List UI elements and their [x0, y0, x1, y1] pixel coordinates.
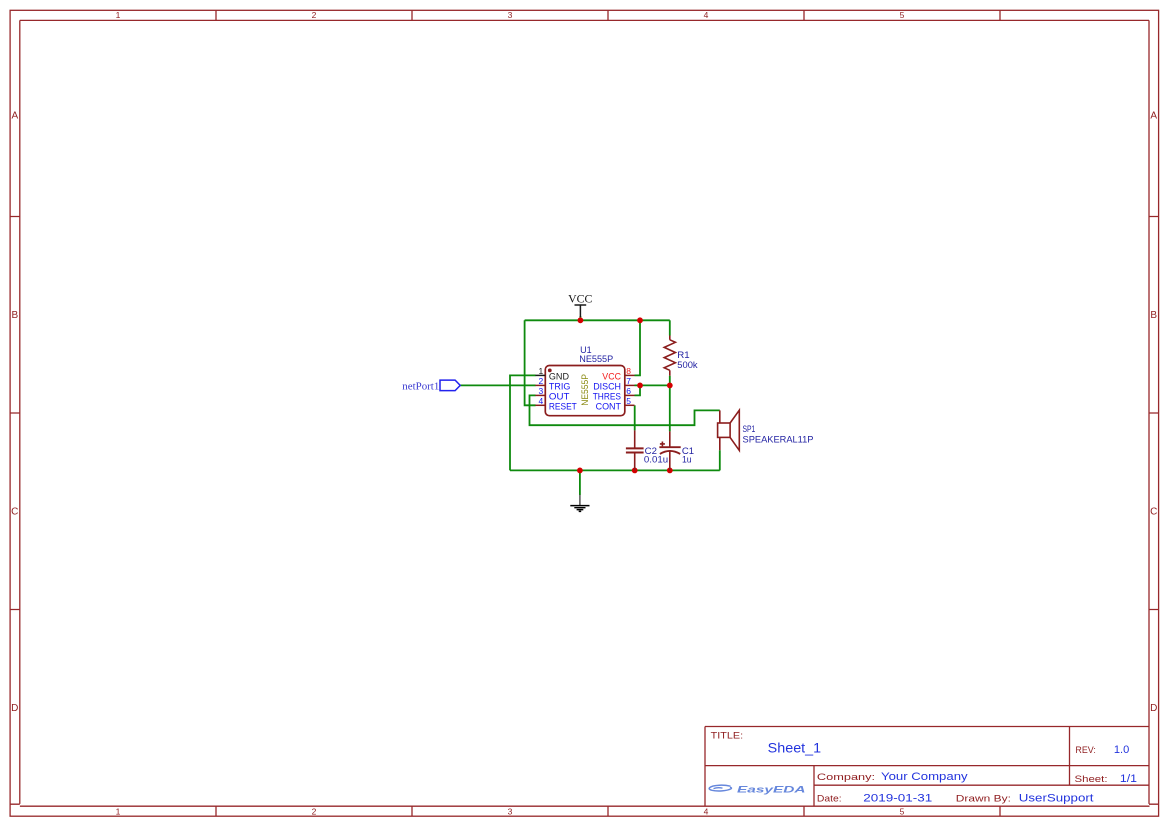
svg-text:1: 1	[116, 806, 121, 816]
svg-text:NE555P: NE555P	[579, 354, 613, 364]
column ticks bottom	[216, 806, 1000, 816]
capacitor C2	[626, 430, 644, 470]
svg-text:2: 2	[312, 806, 317, 816]
svg-text:4: 4	[704, 10, 709, 20]
svg-text:THRES: THRES	[593, 391, 621, 401]
svg-text:B: B	[11, 310, 18, 321]
svg-text:5: 5	[626, 396, 631, 406]
wire R1 top	[669, 320, 671, 335]
pin 2 TRIG stub	[535, 384, 545, 386]
wire DISCH to R1	[635, 384, 670, 386]
node pin8/rail	[637, 317, 643, 323]
node ground stem	[577, 468, 583, 474]
svg-text:TRIG: TRIG	[549, 381, 571, 391]
svg-text:VCC: VCC	[602, 371, 621, 381]
svg-text:A: A	[11, 111, 18, 122]
svg-text:1u: 1u	[682, 455, 692, 465]
svg-text:Company:: Company:	[817, 772, 875, 783]
svg-text:2019-01-31: 2019-01-31	[863, 792, 932, 804]
svg-text:A: A	[1150, 111, 1157, 122]
svg-text:4: 4	[704, 806, 709, 816]
svg-text:Sheet:: Sheet:	[1075, 774, 1108, 785]
svg-text:Date:: Date:	[817, 793, 842, 804]
VCC flag bar and stem	[575, 305, 587, 317]
svg-text:0.01u: 0.01u	[644, 455, 668, 465]
pin 1 GND stub	[535, 374, 545, 376]
wire VCC top rail	[525, 319, 670, 321]
svg-text:1.0: 1.0	[1114, 744, 1129, 756]
pin 5 CONT stub	[625, 404, 635, 406]
node DISCH/R1	[667, 383, 673, 389]
node C1/rail	[667, 468, 673, 474]
svg-text:Drawn By:: Drawn By:	[956, 793, 1011, 804]
svg-text:C: C	[11, 507, 18, 518]
svg-text:3: 3	[508, 10, 513, 20]
pin 6 THRES stub	[625, 394, 635, 396]
wire THRES up to DISCH	[635, 385, 641, 395]
wire ground rail	[510, 469, 720, 471]
svg-text:C: C	[1150, 507, 1157, 518]
svg-text:5: 5	[900, 806, 905, 816]
svg-text:DISCH: DISCH	[593, 381, 621, 391]
capacitor C1 (polarized)	[659, 431, 680, 470]
svg-text:500k: 500k	[677, 360, 698, 370]
svg-text:2: 2	[538, 376, 543, 386]
netPort1 port	[402, 380, 460, 393]
node THRES/DISCH	[637, 383, 643, 389]
column ticks top	[216, 10, 1000, 20]
svg-text:6: 6	[626, 386, 631, 396]
svg-text:netPort1: netPort1	[402, 382, 439, 393]
wire OUT to speaker	[530, 395, 720, 425]
resistor R1	[664, 336, 675, 376]
IC U1 NE555P body	[545, 366, 625, 416]
svg-text:2: 2	[312, 10, 317, 20]
svg-text:EasyEDA: EasyEDA	[737, 784, 806, 794]
svg-text:8: 8	[626, 366, 631, 376]
wire RESET to rail	[525, 320, 536, 405]
svg-text:RESET: RESET	[549, 401, 577, 411]
junction dots	[577, 317, 673, 473]
svg-text:NE555P: NE555P	[580, 374, 590, 406]
svg-text:REV:: REV:	[1075, 745, 1096, 756]
row ticks left	[10, 217, 20, 610]
svg-text:GND: GND	[549, 371, 569, 381]
svg-text:D: D	[1150, 703, 1157, 714]
svg-text:TITLE:: TITLE:	[711, 730, 743, 741]
svg-text:SP1: SP1	[743, 424, 756, 434]
svg-text:UserSupport: UserSupport	[1019, 792, 1094, 804]
svg-text:B: B	[1150, 310, 1157, 321]
speaker SP1	[718, 410, 740, 450]
svg-text:3: 3	[508, 806, 513, 816]
EasyEDA logo	[709, 784, 805, 794]
wire pin8 VCC	[635, 320, 641, 375]
svg-text:VCC: VCC	[568, 294, 593, 306]
row ticks right	[1149, 217, 1159, 610]
netPort1 pentagon symbol	[440, 380, 460, 391]
node VCC rail	[578, 317, 584, 323]
ground stem	[579, 495, 581, 505]
svg-text:Sheet_1: Sheet_1	[768, 740, 821, 755]
svg-text:D: D	[11, 703, 18, 714]
wire speaker bottom	[719, 450, 721, 470]
title block	[705, 727, 1149, 807]
svg-text:SPEAKERAL11P: SPEAKERAL11P	[743, 434, 814, 444]
svg-text:OUT: OUT	[549, 391, 570, 401]
pin 1 marker	[548, 369, 552, 373]
svg-text:1: 1	[116, 10, 121, 20]
node C2/rail	[632, 468, 638, 474]
svg-text:1/1: 1/1	[1120, 773, 1137, 785]
wire CONT down to C2	[634, 405, 636, 430]
wire netPort1 to TRIG	[460, 384, 535, 386]
wire VCC nub	[579, 316, 581, 320]
power flag VCC	[568, 294, 593, 317]
wire R1 bottom to C1	[669, 376, 671, 432]
svg-text:CONT: CONT	[596, 401, 622, 411]
ground bars	[570, 506, 589, 512]
svg-text:Your Company: Your Company	[881, 771, 968, 783]
svg-text:5: 5	[900, 10, 905, 20]
svg-text:1: 1	[538, 366, 543, 376]
pin 4 RESET stub	[535, 404, 545, 406]
svg-text:4: 4	[538, 396, 543, 406]
pin 7 DISCH stub	[625, 384, 635, 386]
svg-text:7: 7	[626, 376, 631, 386]
wire ground stem	[579, 470, 581, 495]
svg-text:R1: R1	[677, 350, 689, 360]
wire GND pin1 to ground rail	[510, 375, 536, 470]
pin 3 OUT stub	[535, 394, 545, 396]
svg-text:3: 3	[538, 386, 543, 396]
ground	[570, 495, 589, 512]
pin 8 VCC stub	[625, 374, 635, 376]
